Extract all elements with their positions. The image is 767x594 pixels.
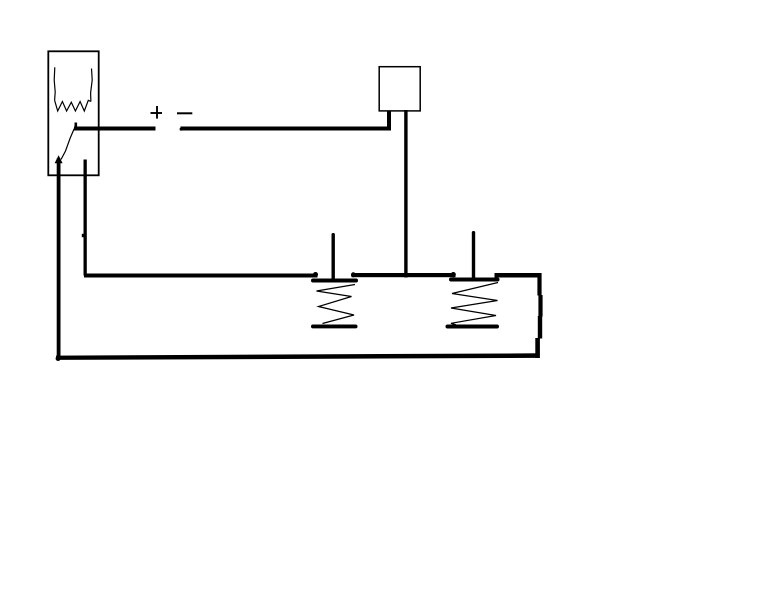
lamp box outline (left device): [48, 51, 98, 175]
wire: bus segment 1 (left): [84, 274, 318, 278]
wire: right vertical return: [537, 273, 541, 296]
component box (top square): [379, 67, 420, 111]
filament zigzag: [55, 100, 91, 111]
wire: bus segment 2 (middle): [352, 273, 456, 277]
wire: negative battery segment to riser: [181, 127, 392, 131]
wire: riser up to component box: [387, 111, 391, 131]
wire: stub above resistor R2: [472, 231, 475, 281]
resistor R2 coil: [451, 283, 498, 325]
switch wiper arm: [61, 129, 74, 160]
resistor R1 bottom plate: [311, 325, 358, 329]
wiper arrowhead: [55, 155, 63, 163]
wire: second left vertical down to bus: [84, 160, 87, 276]
wire: positive battery segment: [74, 127, 156, 131]
plus label: [151, 106, 163, 119]
filament lead left: [54, 67, 55, 100]
resistor R1 coil: [317, 285, 356, 324]
wire: box to bus vertical: [404, 110, 407, 278]
wire: bottom return: [56, 353, 540, 360]
resistor R2 bottom plate: [446, 325, 500, 329]
filament lead right: [91, 69, 93, 102]
wire: bus segment 3 (right): [495, 273, 542, 278]
wire: left vertical (from wiper arrow to bottom): [57, 159, 61, 359]
minus label: [177, 112, 192, 114]
wire: stub above resistor R1: [332, 233, 335, 281]
resistor R1 top plate: [311, 279, 358, 283]
resistor R2 top plate: [449, 278, 500, 282]
